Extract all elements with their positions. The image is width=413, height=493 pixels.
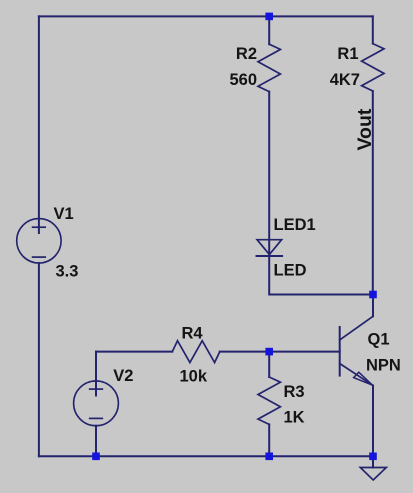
svg-text:R1: R1 (337, 45, 358, 63)
wire collector lead (372, 295, 374, 317)
wire base junction to Q1 base (269, 351, 340, 353)
resistor R3 (258, 377, 280, 424)
V2 plus sign (90, 388, 103, 390)
junction bottom R3 (265, 453, 273, 461)
LED LED1 triangle (257, 240, 282, 255)
resistor R2 (258, 44, 280, 91)
transistor Q1 emitter diagonal (340, 364, 373, 386)
wire base row from V2 to R4 (96, 351, 172, 353)
wire R4 to base junction (220, 351, 269, 353)
svg-text:LED: LED (274, 262, 307, 280)
svg-text:V1: V1 (54, 205, 74, 223)
svg-text:1K: 1K (284, 409, 305, 427)
junction top R2 (265, 13, 273, 21)
transistor Q1 emitter arrow (354, 372, 373, 385)
resistor R1 (362, 44, 384, 91)
wire R1 to junction Vout (372, 91, 374, 295)
svg-text:NPN: NPN (366, 357, 401, 375)
wire ground stub (372, 456, 374, 467)
wire bottom rail (39, 455, 373, 457)
svg-text:R3: R3 (284, 383, 305, 401)
svg-text:560: 560 (229, 71, 257, 89)
wire R2 top lead (268, 16, 270, 44)
wire R2 to LED (268, 92, 270, 256)
junction bottom V2 (92, 453, 100, 461)
LED LED1 cathode bar (257, 255, 283, 257)
resistor R4 (172, 341, 220, 363)
V2 minus sign (90, 417, 103, 419)
wire emitter to bottom rail (372, 386, 374, 457)
svg-text:LED1: LED1 (274, 216, 316, 234)
V1 plus sign vertical (lead end) (38, 219, 40, 233)
junction base node (265, 348, 273, 356)
junction Vout node (369, 291, 377, 299)
transistor Q1 collector diagonal (340, 316, 373, 340)
svg-text:R2: R2 (236, 45, 257, 63)
voltage source V1 circle (17, 219, 61, 263)
svg-text:Q1: Q1 (368, 331, 390, 349)
junction bottom right (369, 453, 377, 461)
svg-text:3.3: 3.3 (56, 262, 79, 280)
wire R3 top lead (268, 352, 270, 377)
V1 plus sign (33, 226, 46, 228)
svg-text:10k: 10k (180, 367, 208, 385)
wire LED to right junction (269, 256, 373, 295)
svg-text:R4: R4 (182, 324, 204, 342)
wire left rail (38, 16, 40, 218)
wire V2 top lead (95, 352, 97, 396)
svg-text:Vout: Vout (354, 108, 376, 150)
wire V2 bottom lead (95, 426, 97, 457)
svg-text:4K7: 4K7 (330, 71, 360, 89)
V1 minus sign (33, 256, 46, 258)
svg-text:V2: V2 (113, 367, 133, 385)
wire R3 bottom lead (268, 424, 270, 456)
wire R1 top lead (372, 16, 374, 43)
wire top rail (39, 15, 373, 17)
ground symbol (360, 468, 386, 481)
voltage source V2 circle (74, 381, 119, 426)
wire left rail lower (38, 263, 40, 456)
transistor Q1 base bar (339, 327, 341, 376)
